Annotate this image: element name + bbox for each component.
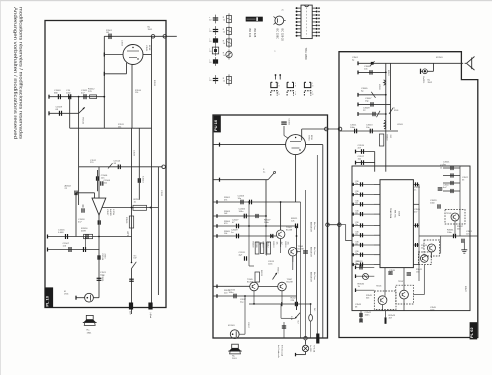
- svg-text:12k: 12k: [135, 92, 138, 94]
- svg-text:Änderungen vorbehalten / modif: Änderungen vorbehalten / modifications r…: [13, 7, 19, 140]
- svg-text:ABGLEICH: ABGLEICH: [310, 272, 313, 282]
- svg-text:PL 02: PL 02: [469, 327, 474, 338]
- svg-text:Nur Serv.: Nur Serv.: [313, 272, 316, 280]
- svg-text:BC328: BC328: [247, 281, 254, 283]
- svg-text:C2017: C2017: [247, 322, 249, 329]
- svg-text:100n: 100n: [447, 232, 453, 234]
- svg-text:100n: 100n: [229, 292, 235, 294]
- svg-text:NT (Ground): NT (Ground): [281, 345, 283, 357]
- svg-text:T3505: T3505: [376, 286, 381, 288]
- svg-text:1k2: 1k2: [259, 242, 261, 245]
- svg-text:R2015: R2015: [260, 270, 262, 277]
- svg-text:R2010: R2010: [261, 242, 263, 249]
- svg-text:L3502: L3502: [378, 84, 380, 90]
- svg-text:100n: 100n: [430, 309, 434, 311]
- svg-text:2200: 2200: [104, 254, 106, 260]
- svg-text:M 2001: M 2001: [228, 325, 236, 327]
- svg-text:(+)Batt: (+)Batt: [149, 312, 152, 319]
- svg-text:BC238: BC238: [287, 281, 294, 283]
- svg-text:1k: 1k: [223, 43, 225, 45]
- svg-text:C1523: C1523: [160, 190, 162, 197]
- svg-text:ABGLEICH: ABGLEICH: [310, 222, 313, 232]
- svg-text:V1507: V1507: [106, 209, 108, 216]
- svg-text:1n: 1n: [414, 189, 416, 191]
- svg-text:1k: 1k: [440, 167, 442, 169]
- svg-text:10: 10: [209, 20, 211, 22]
- svg-text:M 3501: M 3501: [436, 57, 444, 59]
- svg-text:56k: 56k: [118, 126, 121, 128]
- svg-text:C1522: C1522: [133, 150, 135, 157]
- svg-text:10n: 10n: [355, 183, 358, 185]
- svg-text:100n: 100n: [66, 93, 72, 95]
- svg-text:10: 10: [209, 62, 211, 64]
- svg-text:La 2001: La 2001: [309, 345, 311, 353]
- svg-text:BC 328-25: BC 328-25: [281, 29, 285, 42]
- svg-text:100n: 100n: [239, 211, 245, 213]
- svg-text:A109D: A109D: [109, 209, 112, 216]
- svg-text:100n: 100n: [264, 222, 270, 224]
- svg-text:10n: 10n: [355, 234, 358, 236]
- svg-text:TDA 1050: TDA 1050: [304, 48, 308, 60]
- svg-text:100n: 100n: [365, 315, 371, 317]
- svg-text:Nur Serv.: Nur Serv.: [313, 222, 316, 230]
- svg-text:292A: 292A: [398, 211, 401, 216]
- svg-text:R2012: R2012: [267, 242, 269, 248]
- svg-text:1k5: 1k5: [287, 242, 289, 245]
- svg-text:C1513: C1513: [142, 176, 144, 183]
- svg-text:C1502: C1502: [121, 40, 123, 47]
- svg-text:TDA1050A: TDA1050A: [389, 208, 392, 219]
- svg-text:2x: 2x: [282, 10, 284, 12]
- svg-text:modifications réservées / modi: modifications réservées / modificaciones…: [19, 7, 24, 140]
- svg-text:0.068: 0.068: [58, 232, 64, 234]
- svg-text:1901: 1901: [87, 332, 93, 334]
- svg-text:BC238: BC238: [298, 248, 305, 250]
- svg-text:10n: 10n: [355, 203, 358, 205]
- svg-text:EF98: EF98: [148, 45, 150, 51]
- svg-text:100n: 100n: [350, 127, 356, 129]
- svg-text:10: 10: [209, 80, 211, 82]
- svg-text:1k: 1k: [223, 55, 225, 57]
- svg-text:V1501: V1501: [145, 45, 147, 52]
- svg-text:bei Gerätesch.: bei Gerätesch.: [277, 345, 280, 358]
- svg-text:R3503: R3503: [385, 135, 387, 142]
- svg-text:100n: 100n: [268, 263, 272, 265]
- svg-text:WK 765: WK 765: [393, 210, 395, 218]
- svg-text:T3503: T3503: [446, 213, 451, 215]
- svg-text:R1510: R1510: [82, 118, 84, 125]
- svg-text:C1519: C1519: [101, 254, 103, 261]
- svg-text:L3503: L3503: [397, 124, 403, 126]
- svg-text:1k: 1k: [223, 20, 225, 22]
- svg-text:C2001: C2001: [288, 119, 290, 126]
- svg-text:LW 1: LW 1: [126, 231, 129, 237]
- svg-text:4k99: 4k99: [81, 231, 87, 233]
- svg-text:1/07A: 1/07A: [112, 209, 115, 215]
- svg-text:1M: 1M: [106, 32, 109, 34]
- svg-text:1k: 1k: [223, 81, 225, 83]
- svg-text:10n: 10n: [355, 243, 358, 245]
- svg-text:100n: 100n: [430, 203, 436, 205]
- svg-text:PL 10: PL 10: [44, 295, 49, 306]
- svg-text:R3501: R3501: [387, 70, 389, 77]
- svg-text:R2009: R2009: [252, 242, 254, 249]
- svg-text:R1522: R1522: [153, 80, 155, 87]
- svg-text:10k: 10k: [275, 242, 277, 245]
- svg-text:BC 238C: BC 238C: [275, 29, 279, 40]
- svg-text:10n: 10n: [355, 213, 358, 215]
- svg-text:PU 10: PU 10: [213, 119, 218, 131]
- svg-text:R2013: R2013: [272, 242, 274, 249]
- svg-text:R3547: R3547: [464, 286, 466, 293]
- svg-text:R2009: R2009: [255, 242, 257, 248]
- svg-text:T3507: T3507: [398, 281, 403, 283]
- svg-text:7V 0.3A: 7V 0.3A: [312, 345, 315, 353]
- svg-text:R1520: R1520: [125, 217, 127, 224]
- svg-text:Nur Serv.: Nur Serv.: [313, 247, 316, 255]
- svg-text:10: 10: [209, 41, 211, 43]
- svg-text:10: 10: [209, 51, 211, 53]
- svg-text:BD 433: BD 433: [248, 29, 252, 38]
- svg-text:4k7: 4k7: [280, 242, 282, 245]
- svg-text:47k: 47k: [224, 199, 227, 201]
- svg-text:BD 628: BD 628: [253, 29, 257, 38]
- svg-text:R2014: R2014: [284, 242, 286, 249]
- svg-text:Bu3501: Bu3501: [422, 77, 424, 85]
- svg-text:10n: 10n: [466, 233, 469, 235]
- svg-text:BC238: BC238: [286, 229, 293, 231]
- svg-text:10n: 10n: [355, 224, 358, 226]
- svg-text:10k: 10k: [224, 233, 227, 235]
- svg-text:10n: 10n: [355, 253, 358, 255]
- svg-text:10: 10: [209, 31, 211, 33]
- svg-text:V2001: V2001: [307, 135, 309, 142]
- svg-text:1k: 1k: [223, 32, 225, 34]
- svg-text:10n: 10n: [355, 193, 358, 195]
- svg-text:LW: LW: [134, 258, 137, 260]
- svg-text:1n: 1n: [389, 272, 391, 274]
- svg-text:ABGLEICH: ABGLEICH: [310, 247, 313, 257]
